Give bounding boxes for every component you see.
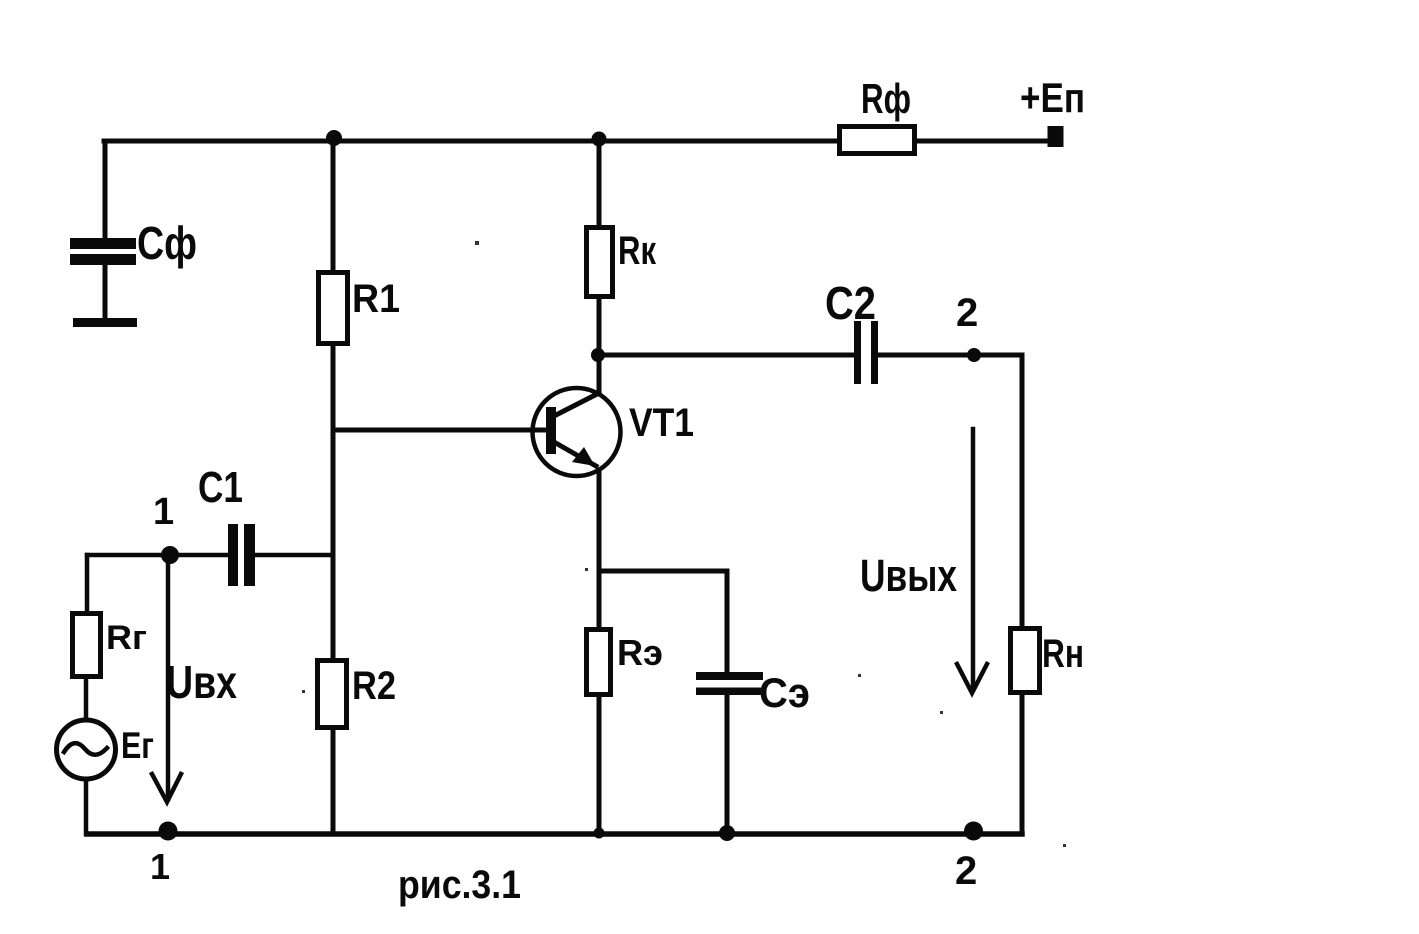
wire Eg to bottom rail xyxy=(84,780,89,834)
generator Eг sine xyxy=(64,743,107,755)
resistor Rэ xyxy=(587,630,611,695)
wire collector to C2 xyxy=(599,353,854,358)
svg-text:C2: C2 xyxy=(825,277,876,329)
junction dot node 2 bottom xyxy=(964,822,983,841)
arrow Uвх xyxy=(166,563,171,799)
junction dot node 1 bottom xyxy=(159,822,178,841)
junction dot node 2 top xyxy=(967,348,981,362)
wire input node to C1 xyxy=(87,553,228,558)
capacitor C2 left plate xyxy=(854,321,861,384)
resistor Rг xyxy=(73,614,101,677)
svg-text:Cф: Cф xyxy=(137,217,197,269)
junction dot emitter bottom xyxy=(594,828,605,839)
svg-text:рис.3.1: рис.3.1 xyxy=(398,863,521,907)
transistor VT1 collector stroke xyxy=(554,393,599,416)
svg-text:Rг: Rг xyxy=(106,619,147,657)
svg-text:1: 1 xyxy=(153,491,174,533)
svg-text:VT1: VT1 xyxy=(629,401,694,445)
junction dot Ce bottom xyxy=(719,825,735,841)
capacitor C1 left plate xyxy=(228,524,238,586)
transistor VT1 body xyxy=(533,388,621,476)
capacitor Cэ bottom plate xyxy=(696,688,763,696)
wire Cf to ground xyxy=(103,265,108,320)
wire Rg to Eg xyxy=(84,679,89,718)
svg-text:2: 2 xyxy=(956,291,978,335)
junction dot top of R1 xyxy=(326,130,342,146)
capacitor C2 right plate xyxy=(871,321,878,384)
transistor VT1 base bar xyxy=(546,407,556,454)
wire left drop to Cf xyxy=(103,141,108,239)
wire R1 top lead xyxy=(331,141,336,270)
wire C2 to node 2 corner xyxy=(878,355,1022,626)
capacitor C1 right plate xyxy=(244,524,255,586)
capacitor Cф top plate xyxy=(70,238,136,249)
wire top rail xyxy=(104,139,1048,144)
capacitor Cф bottom plate xyxy=(70,254,136,265)
wire source column top xyxy=(85,555,90,611)
wire Ce to bottom rail xyxy=(725,694,730,834)
wire R1 bottom to R2 xyxy=(331,346,336,659)
wire emitter to Ce corner xyxy=(599,571,727,672)
svg-text:Rэ: Rэ xyxy=(617,632,663,673)
svg-text:2: 2 xyxy=(955,849,977,893)
svg-text:+Eп: +Eп xyxy=(1020,74,1085,121)
transistor VT1 emitter stroke xyxy=(554,442,596,466)
wire Rk top lead xyxy=(597,141,602,225)
wire R2 to bottom rail xyxy=(331,730,336,834)
wire base xyxy=(333,428,546,433)
terminal +Eп xyxy=(1048,126,1064,147)
resistor Rн xyxy=(1011,629,1040,693)
scan speckles xyxy=(302,241,1066,847)
svg-text:Uвых: Uвых xyxy=(860,550,957,601)
svg-text:Rк: Rк xyxy=(618,229,657,273)
svg-text:Rф: Rф xyxy=(861,75,911,122)
resistor Rк xyxy=(587,228,613,297)
svg-text:C1: C1 xyxy=(198,463,243,512)
svg-text:Eг: Eг xyxy=(121,725,154,766)
svg-text:Uвх: Uвх xyxy=(166,656,237,708)
svg-text:Rн: Rн xyxy=(1042,632,1084,676)
svg-text:R1: R1 xyxy=(352,277,400,321)
resistor R1 xyxy=(319,273,348,344)
junction dot top of Rk xyxy=(592,132,607,147)
resistor Rф xyxy=(840,127,915,154)
junction dot node 1 top xyxy=(161,546,179,564)
wire emitter down xyxy=(597,470,602,627)
wire C1 to base column xyxy=(255,553,333,558)
svg-text:1: 1 xyxy=(150,846,170,887)
resistor R2 xyxy=(318,661,347,728)
transistor VT1 emitter arrowhead xyxy=(572,447,595,466)
ground xyxy=(73,318,137,327)
capacitor Cэ top plate xyxy=(696,672,763,680)
svg-text:Cэ: Cэ xyxy=(759,669,810,716)
wire bottom rail xyxy=(87,831,1022,837)
generator Eг body xyxy=(57,720,116,779)
arrow Uвых xyxy=(971,429,976,689)
wire Re to bottom rail xyxy=(597,697,602,834)
junction dot collector tap xyxy=(591,348,605,362)
wire Rk to collector xyxy=(597,299,602,392)
wire Rn to bottom rail xyxy=(1020,695,1025,834)
svg-text:R2: R2 xyxy=(352,664,396,708)
